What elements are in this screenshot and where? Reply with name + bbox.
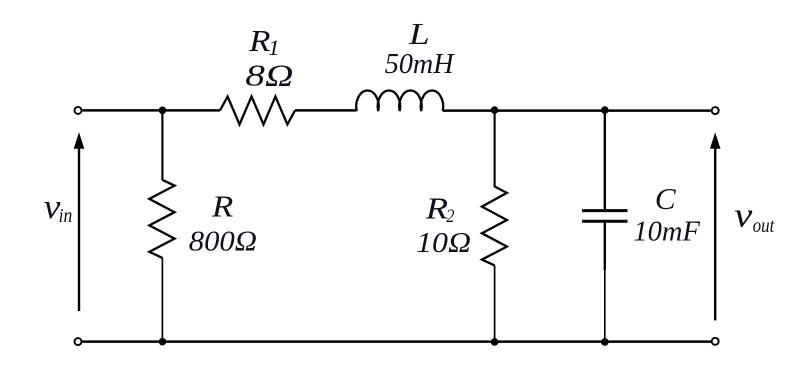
capacitor C top plate: [582, 209, 628, 212]
capacitor C value 10mF: [633, 217, 700, 248]
terminal top-right: [712, 107, 719, 114]
wire top-left segment: [82, 109, 220, 112]
terminal top-left: [75, 107, 82, 114]
wire top-middle segment: [295, 109, 357, 112]
wire R branch upper: [161, 110, 163, 179]
capacitor C bottom plate: [582, 220, 628, 223]
svg-text:L: L: [408, 17, 430, 51]
svg-text:8Ω: 8Ω: [245, 58, 293, 93]
resistor R name label: [211, 190, 233, 223]
junction dot bottom C: [601, 338, 609, 346]
svg-text:R: R: [248, 25, 270, 59]
svg-text:10Ω: 10Ω: [416, 227, 471, 259]
wire R2 branch lower: [494, 265, 496, 341]
svg-text:50mH: 50mH: [385, 48, 455, 79]
inductor L value 50mH: [385, 48, 455, 79]
capacitor C name label: [655, 181, 676, 216]
wire R2 branch upper: [494, 110, 496, 187]
terminal bottom-right: [712, 338, 719, 345]
junction dot top R: [159, 107, 167, 115]
svg-text:2: 2: [446, 205, 454, 226]
resistor R2 (vertical middle): [482, 187, 507, 266]
svg-text:in: in: [59, 205, 73, 227]
resistor R1 name label: [248, 25, 270, 59]
svg-text:v: v: [734, 196, 752, 235]
vout label subscript out: [753, 215, 775, 238]
svg-text:R: R: [425, 192, 449, 225]
resistor R1: [220, 97, 295, 125]
vout arrowhead: [710, 132, 721, 149]
vout arrow shaft: [714, 148, 716, 321]
vin arrow shaft: [78, 148, 80, 312]
resistor R1 value 8ohm: [245, 58, 293, 93]
resistor R2 value 10ohm: [416, 227, 471, 259]
resistor R value 800ohm: [189, 225, 257, 257]
vin label v: [44, 187, 62, 226]
resistor R1 subscript 1: [268, 35, 279, 60]
resistor R2 subscript 2: [446, 205, 454, 226]
resistor R (vertical left): [149, 180, 174, 258]
svg-text:1: 1: [268, 35, 279, 60]
inductor L name label: [408, 17, 430, 51]
svg-text:10mF: 10mF: [633, 217, 700, 248]
wire bottom rail: [82, 340, 711, 343]
wire C branch upper: [604, 110, 606, 209]
junction dot top C: [601, 106, 609, 114]
junction dot bottom R2: [491, 338, 499, 346]
vout label v: [734, 196, 752, 235]
vin label subscript in: [59, 205, 73, 227]
terminal bottom-left: [75, 338, 82, 345]
resistor R2 name label: [425, 192, 449, 225]
svg-text:800Ω: 800Ω: [189, 225, 257, 257]
wire R branch lower: [161, 258, 163, 342]
junction dot top R2: [491, 106, 499, 114]
wire top-right segment: [443, 109, 711, 112]
svg-text:C: C: [655, 181, 676, 216]
svg-text:R: R: [211, 190, 233, 223]
junction dot bottom R: [159, 338, 167, 346]
vin arrowhead: [74, 132, 85, 149]
wire C branch lower thick: [604, 222, 606, 270]
inductor L: [356, 91, 443, 111]
wire C branch lower thin: [604, 270, 606, 342]
svg-text:out: out: [753, 215, 775, 238]
